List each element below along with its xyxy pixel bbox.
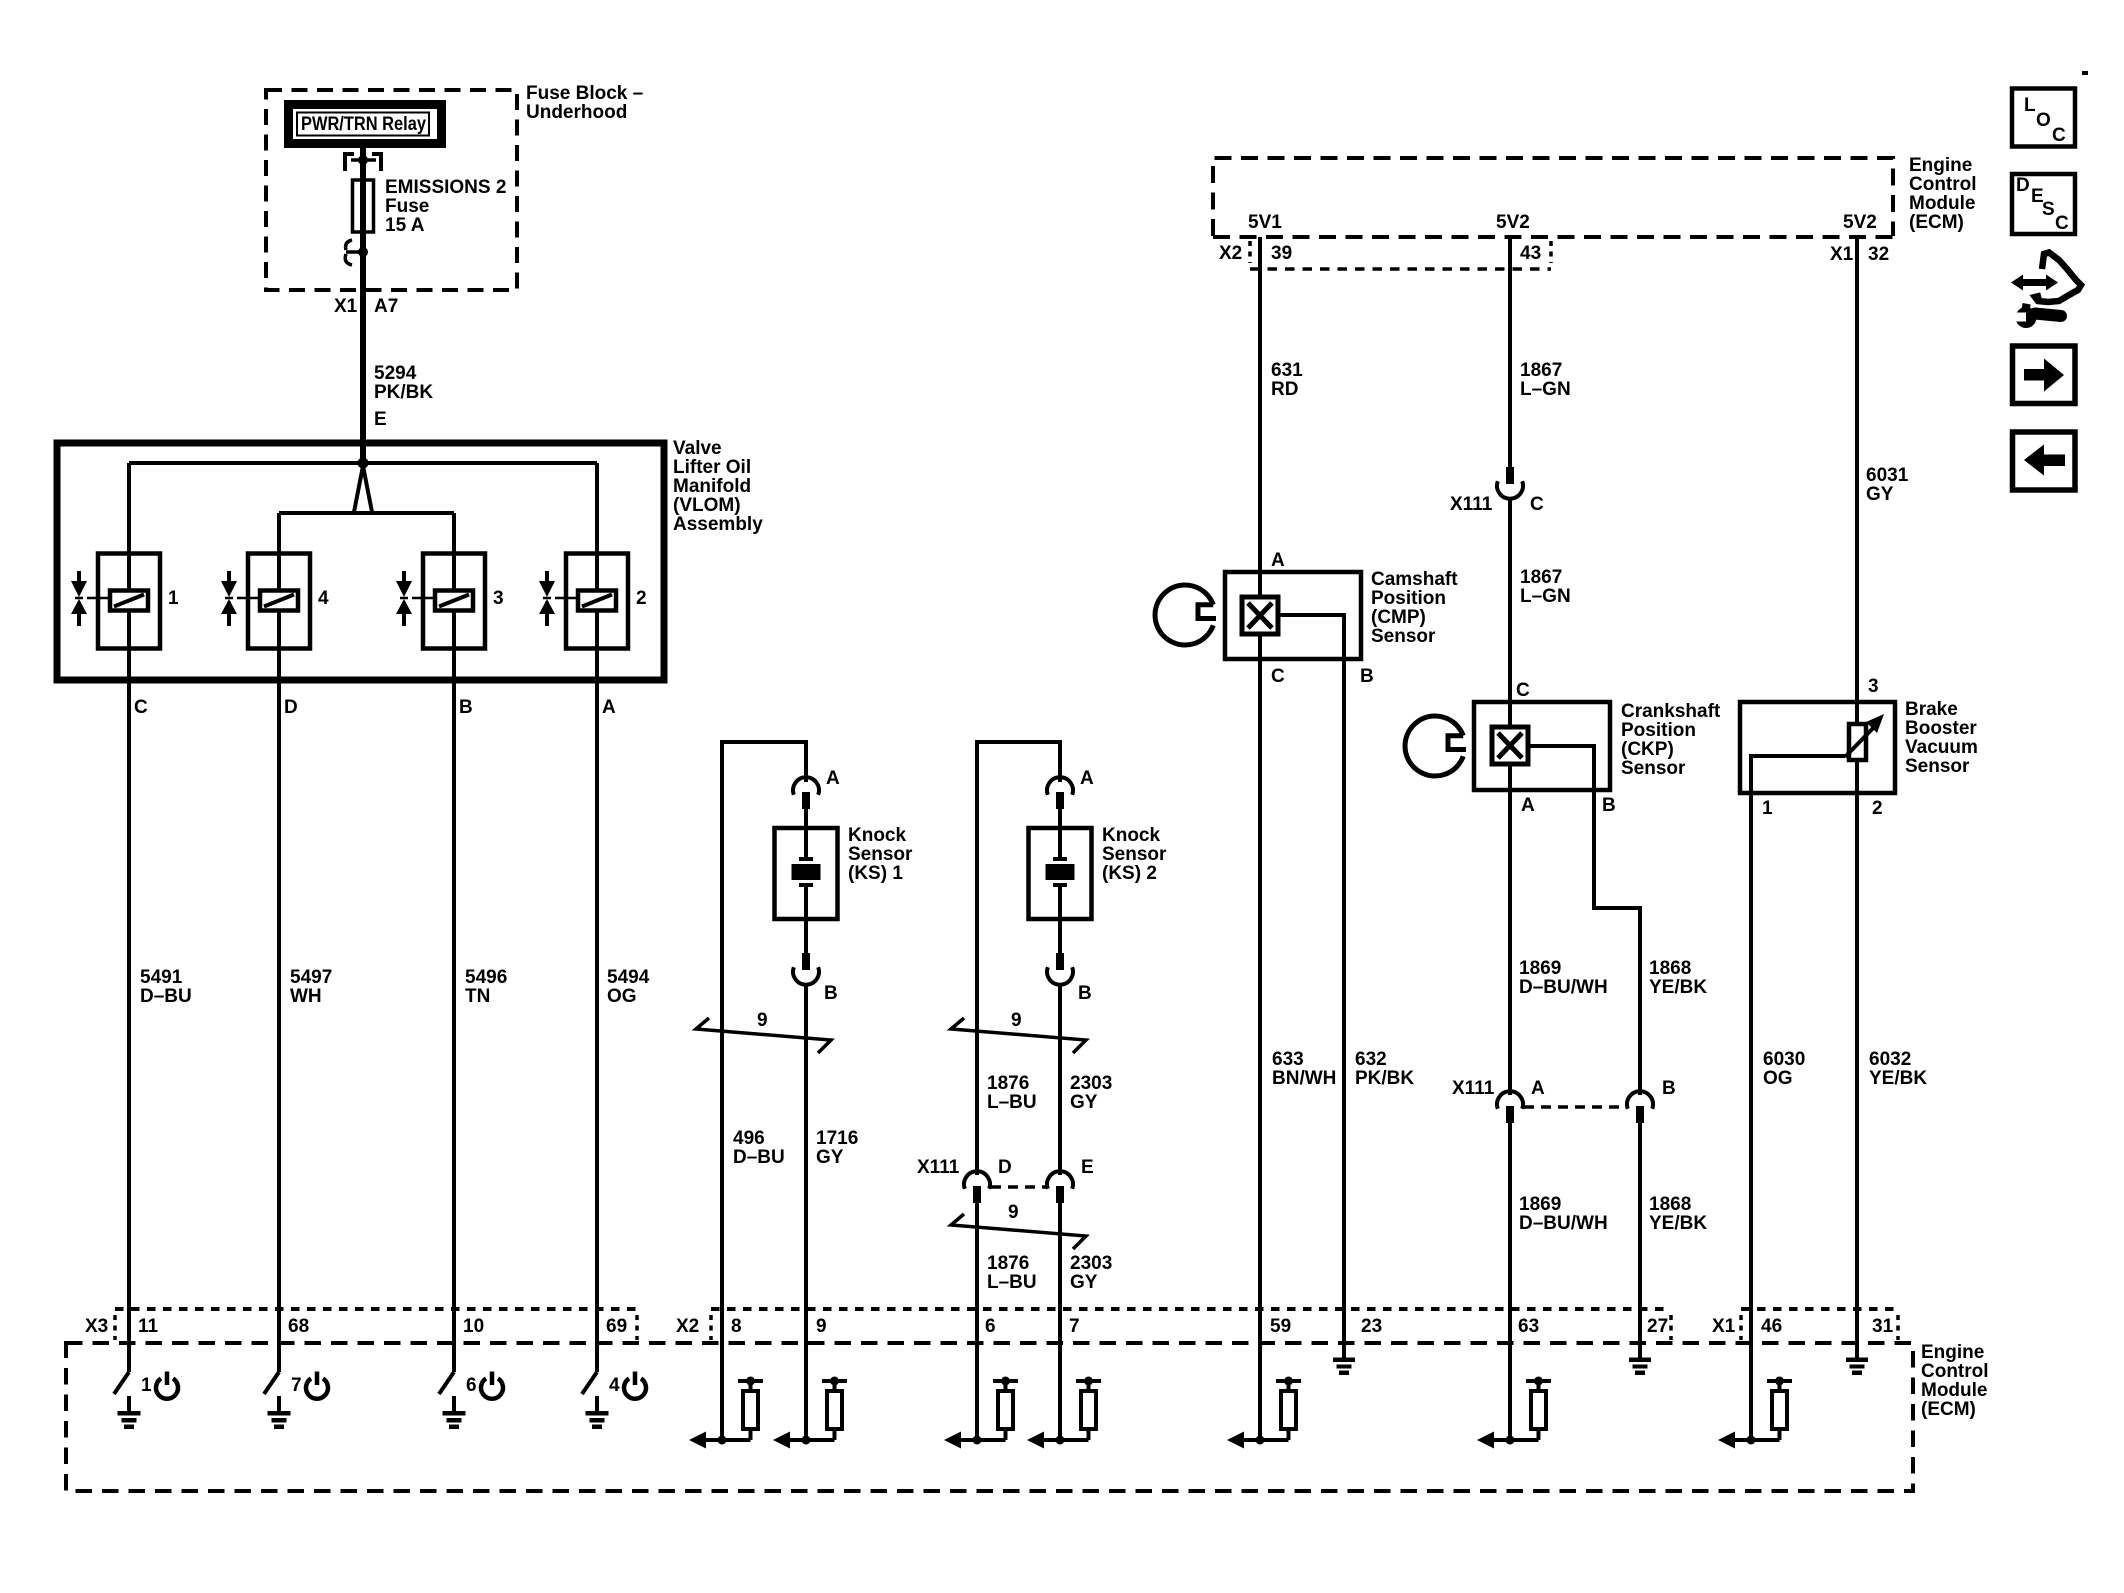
wire column B upper: [452, 513, 456, 553]
svg-text:B: B: [1360, 666, 1374, 687]
mark top right: [2082, 71, 2088, 75]
svg-text:Sensor: Sensor: [1905, 756, 1970, 777]
svg-text:8: 8: [731, 1316, 742, 1337]
wire dashed X111 D-E link: [991, 1185, 1046, 1189]
svg-text:C: C: [1530, 494, 1544, 515]
svg-text:Module: Module: [1909, 193, 1976, 214]
svg-text:31: 31: [1872, 1316, 1894, 1337]
wire 6030 OG: [1749, 793, 1753, 1343]
svg-text:Engine: Engine: [1909, 155, 1972, 176]
svg-text:4: 4: [609, 1375, 620, 1396]
svg-text:9: 9: [1008, 1202, 1019, 1223]
svg-text:(VLOM): (VLOM): [673, 495, 741, 516]
svg-text:1867: 1867: [1520, 567, 1562, 588]
svg-text:X111: X111: [917, 1157, 960, 1178]
svg-text:11: 11: [138, 1316, 159, 1337]
svg-text:5V2: 5V2: [1843, 212, 1877, 233]
svg-text:PK/BK: PK/BK: [374, 382, 433, 403]
svg-text:(KS) 2: (KS) 2: [1102, 863, 1157, 884]
shield symbol KS2 circuit 9 upper: [951, 1010, 1086, 1053]
svg-text:TN: TN: [465, 986, 490, 1007]
svg-text:1: 1: [141, 1375, 152, 1396]
svg-text:X1: X1: [1830, 244, 1854, 265]
svg-text:2303: 2303: [1070, 1253, 1112, 1274]
svg-text:631: 631: [1271, 360, 1303, 381]
svg-text:5V2: 5V2: [1496, 212, 1530, 233]
svg-text:6: 6: [466, 1375, 477, 1396]
svg-text:6031: 6031: [1866, 465, 1909, 486]
power symbol 7: [306, 1372, 328, 1399]
svg-text:RD: RD: [1271, 379, 1298, 400]
wire KS1 right drop: [804, 740, 808, 782]
svg-text:B: B: [1078, 983, 1092, 1004]
svg-text:Crankshaft: Crankshaft: [1621, 701, 1721, 722]
svg-text:C: C: [1516, 680, 1530, 701]
svg-text:43: 43: [1520, 243, 1541, 264]
valve symbol 1: [71, 571, 110, 626]
svg-text:X111: X111: [1452, 1078, 1495, 1099]
wire 5491 D-BU: [127, 648, 131, 1343]
svg-text:E: E: [374, 409, 387, 430]
wire 2303 below X111: [1058, 1203, 1062, 1343]
wire 631 RD: [1258, 237, 1262, 597]
wire 633 BN/WH: [1258, 634, 1262, 1343]
svg-text:B: B: [824, 983, 838, 1004]
svg-text:1867: 1867: [1520, 360, 1562, 381]
svg-text:5494: 5494: [607, 967, 650, 988]
ECM bottom dashed box: [66, 1343, 1913, 1491]
wire 5497 WH: [277, 648, 281, 1343]
svg-text:7: 7: [1069, 1316, 1080, 1337]
Fuse Block - Underhood dashed box: [266, 90, 517, 290]
svg-text:1: 1: [168, 588, 179, 609]
svg-text:9: 9: [816, 1316, 827, 1337]
svg-text:496: 496: [733, 1128, 765, 1149]
svg-text:(CMP): (CMP): [1371, 607, 1426, 628]
svg-text:Sensor: Sensor: [1371, 626, 1436, 647]
icon arrow right box: [2013, 346, 2076, 404]
wire 1868 YE/BK upper with jog: [1594, 790, 1640, 1095]
svg-text:X111: X111: [1450, 494, 1493, 515]
svg-text:X3: X3: [85, 1316, 108, 1337]
svg-text:A: A: [1080, 768, 1094, 789]
wire 1869 D-BU/WH lower: [1508, 1122, 1512, 1343]
solenoid 2: [566, 553, 628, 649]
svg-text:Lifter Oil: Lifter Oil: [673, 457, 751, 478]
svg-text:(KS) 1: (KS) 1: [848, 863, 903, 884]
svg-text:B: B: [1662, 1078, 1676, 1099]
ground pin 27: [1629, 1343, 1651, 1375]
wire 1868 YE/BK lower: [1638, 1122, 1642, 1343]
svg-text:5496: 5496: [465, 967, 507, 988]
svg-text:46: 46: [1761, 1316, 1782, 1337]
wire KS2 right drop: [1058, 740, 1062, 782]
wire Y split to rail D-B: [354, 466, 372, 512]
svg-text:O: O: [2036, 110, 2051, 131]
svg-text:Camshaft: Camshaft: [1371, 569, 1458, 590]
ECM top bottom edge dashed: [1213, 235, 1893, 239]
wire 6031 GY: [1855, 237, 1859, 722]
wire top rail C-A: [129, 461, 597, 465]
svg-text:68: 68: [288, 1316, 309, 1337]
svg-text:59: 59: [1270, 1316, 1291, 1337]
svg-text:YE/BK: YE/BK: [1649, 1213, 1707, 1234]
svg-text:OG: OG: [1763, 1068, 1793, 1089]
svg-text:L–GN: L–GN: [1520, 586, 1571, 607]
svg-text:1868: 1868: [1649, 958, 1691, 979]
svg-text:15 A: 15 A: [385, 215, 425, 236]
svg-text:Brake: Brake: [1905, 699, 1958, 720]
connector X111 pin C: [1450, 467, 1544, 515]
wire CKP internal to B: [1528, 746, 1594, 790]
svg-text:Engine: Engine: [1921, 1342, 1984, 1363]
svg-text:PK/BK: PK/BK: [1355, 1068, 1414, 1089]
wire 2303 GY upper: [1058, 984, 1062, 1175]
svg-text:Valve: Valve: [673, 438, 722, 459]
ECM top dashed box: [1213, 158, 1893, 236]
svg-text:1868: 1868: [1649, 1194, 1691, 1215]
svg-text:1869: 1869: [1519, 1194, 1561, 1215]
svg-text:2303: 2303: [1070, 1073, 1112, 1094]
svg-text:D: D: [2016, 175, 2030, 196]
wire column A upper: [595, 463, 599, 553]
svg-text:39: 39: [1271, 243, 1292, 264]
wire KS2 to pin B: [1058, 919, 1062, 953]
svg-text:Vacuum: Vacuum: [1905, 737, 1978, 758]
svg-text:A7: A7: [374, 296, 398, 317]
svg-text:B: B: [1602, 795, 1616, 816]
svg-text:23: 23: [1361, 1316, 1382, 1337]
svg-text:D–BU/WH: D–BU/WH: [1519, 1213, 1608, 1234]
svg-text:WH: WH: [290, 986, 322, 1007]
camshaft position CMP sensor: [1225, 569, 1458, 659]
power symbol 1: [156, 1372, 178, 1399]
ground pin 23: [1333, 1343, 1355, 1375]
wire 1867 L-GN lower: [1508, 499, 1512, 727]
svg-text:4: 4: [318, 588, 329, 609]
wire relay to fuse: [360, 148, 366, 180]
svg-text:6030: 6030: [1763, 1049, 1805, 1070]
shield symbol KS2 circuit 9 lower: [951, 1202, 1086, 1249]
resistor input pin 6: [944, 1343, 1018, 1449]
svg-text:C: C: [134, 697, 148, 718]
wire KS2 left 1876 L-BU: [975, 740, 979, 1343]
connector KS2 pin A: [1047, 768, 1094, 809]
connector KS1 pin B: [793, 953, 838, 1004]
svg-text:63: 63: [1518, 1316, 1539, 1337]
svg-text:3: 3: [1868, 676, 1879, 697]
svg-text:27: 27: [1647, 1316, 1668, 1337]
svg-text:(ECM): (ECM): [1909, 212, 1964, 233]
icon LOC box: [2012, 89, 2075, 147]
svg-text:YE/BK: YE/BK: [1869, 1068, 1927, 1089]
svg-text:1876: 1876: [987, 1073, 1029, 1094]
wire 1869 D-BU/WH upper: [1508, 764, 1512, 1095]
power symbol 6: [481, 1372, 503, 1399]
wire KS1 to pin B: [804, 919, 808, 953]
shield symbol KS1 circuit 9: [696, 1010, 831, 1053]
wire 6032 YE/BK: [1855, 760, 1859, 1343]
svg-text:D–BU: D–BU: [140, 986, 192, 1007]
svg-text:X1: X1: [334, 296, 358, 317]
svg-text:OG: OG: [607, 986, 637, 1007]
svg-text:9: 9: [757, 1010, 768, 1031]
svg-text:EMISSIONS 2: EMISSIONS 2: [385, 177, 506, 198]
wire KS1 top loop: [720, 740, 806, 744]
svg-text:7: 7: [291, 1375, 302, 1396]
svg-text:Assembly: Assembly: [673, 514, 763, 535]
driver switch 4 ground: [582, 1343, 620, 1429]
svg-text:GY: GY: [816, 1147, 844, 1168]
svg-text:L–BU: L–BU: [987, 1272, 1037, 1293]
svg-text:69: 69: [606, 1316, 627, 1337]
svg-text:D: D: [284, 697, 298, 718]
wire rail D-B: [279, 511, 454, 515]
relay PWR/TRN Relay: [289, 105, 442, 144]
svg-text:BN/WH: BN/WH: [1272, 1068, 1336, 1089]
wire 1876 below X111: [975, 1203, 979, 1343]
valve symbol 4: [221, 571, 260, 626]
svg-text:10: 10: [463, 1316, 484, 1337]
svg-text:32: 32: [1868, 244, 1889, 265]
svg-text:L–GN: L–GN: [1520, 379, 1571, 400]
svg-text:Underhood: Underhood: [526, 102, 627, 123]
svg-text:GY: GY: [1070, 1092, 1098, 1113]
wire KS2 top loop: [975, 740, 1060, 744]
svg-text:5V1: 5V1: [1248, 212, 1282, 233]
connector KS2 pin B: [1047, 953, 1092, 1004]
svg-text:633: 633: [1272, 1049, 1304, 1070]
wire CMP internal to B: [1278, 615, 1344, 659]
svg-text:C: C: [2055, 213, 2069, 234]
svg-text:Sensor: Sensor: [1102, 844, 1167, 865]
svg-text:Module: Module: [1921, 1380, 1988, 1401]
wire 5496 TN: [452, 648, 456, 1343]
svg-text:A: A: [602, 697, 616, 718]
resistor input pin 9: [773, 1343, 847, 1449]
solenoid 3: [423, 553, 485, 649]
svg-text:Fuse: Fuse: [385, 196, 429, 217]
svg-text:C: C: [1271, 666, 1285, 687]
connector X111 pin B: [1627, 1078, 1676, 1123]
svg-text:6: 6: [985, 1316, 996, 1337]
svg-text:A: A: [826, 768, 840, 789]
svg-text:A: A: [1521, 795, 1535, 816]
wire fuse to lower clip: [360, 232, 366, 290]
svg-text:2: 2: [1872, 798, 1883, 819]
connector X3 dotted strip: [115, 1309, 637, 1340]
svg-text:YE/BK: YE/BK: [1649, 977, 1707, 998]
svg-text:A: A: [1271, 550, 1285, 571]
fuse EMISSIONS 2 15A: [353, 180, 374, 232]
driver switch 6 ground: [439, 1343, 477, 1429]
connector X111 pin A: [1452, 1078, 1545, 1123]
valve symbol 2: [539, 571, 578, 626]
knock sensor KS1: [775, 825, 914, 919]
reluctor wheel CKP: [1405, 716, 1466, 776]
svg-text:E: E: [1081, 1157, 1094, 1178]
resistor input pin 8: [689, 1343, 763, 1449]
wire column C upper: [127, 463, 131, 553]
svg-text:(CKP): (CKP): [1621, 739, 1674, 760]
connector KS1 pin A: [793, 768, 840, 809]
svg-text:Knock: Knock: [1102, 825, 1161, 846]
connector X2 top labels 39 43: [1219, 241, 1551, 269]
svg-text:1869: 1869: [1519, 958, 1561, 979]
resistor input pin 59: [1227, 1343, 1301, 1449]
icon arrow left box: [2013, 432, 2076, 490]
VLOM assembly box: [57, 443, 664, 680]
svg-text:(ECM): (ECM): [1921, 1399, 1976, 1420]
wire 5294 PK/BK: [360, 290, 366, 443]
ground pin 31: [1846, 1343, 1868, 1375]
wire column D upper: [277, 513, 281, 553]
svg-text:2: 2: [636, 588, 647, 609]
svg-text:Sensor: Sensor: [1621, 758, 1686, 779]
wire KS1 left 496 D-BU: [720, 740, 724, 1343]
knock sensor KS2: [1029, 825, 1168, 919]
wire into KS2: [1058, 808, 1062, 828]
fuse holder lower clip: [345, 240, 368, 265]
svg-text:Position: Position: [1621, 720, 1696, 741]
node junction dot: [358, 458, 369, 469]
wire 5494 OG: [595, 648, 599, 1343]
svg-text:X2: X2: [676, 1316, 699, 1337]
svg-text:3: 3: [493, 588, 504, 609]
svg-text:Booster: Booster: [1905, 718, 1977, 739]
driver switch 7 ground: [264, 1343, 302, 1429]
svg-text:632: 632: [1355, 1049, 1387, 1070]
wire E into VLOM: [360, 443, 366, 463]
svg-text:1876: 1876: [987, 1253, 1029, 1274]
svg-text:D–BU/WH: D–BU/WH: [1519, 977, 1608, 998]
svg-text:1: 1: [1762, 798, 1773, 819]
wire 632 PK/BK: [1342, 659, 1346, 1343]
svg-text:Knock: Knock: [848, 825, 907, 846]
wire 1716 GY: [804, 984, 808, 1343]
svg-text:1716: 1716: [816, 1128, 858, 1149]
svg-text:GY: GY: [1070, 1272, 1098, 1293]
svg-text:5497: 5497: [290, 967, 332, 988]
svg-text:L: L: [2024, 95, 2036, 116]
svg-text:6032: 6032: [1869, 1049, 1911, 1070]
driver switch 1 ground: [114, 1343, 152, 1429]
resistor input pin 63: [1477, 1343, 1551, 1449]
svg-text:Fuse Block –: Fuse Block –: [526, 83, 643, 104]
wire BBV internal pin1: [1751, 756, 1845, 793]
svg-text:A: A: [1531, 1078, 1545, 1099]
reluctor wheel CMP: [1155, 585, 1216, 645]
svg-text:Sensor: Sensor: [848, 844, 913, 865]
brake booster vacuum sensor: [1740, 699, 1978, 793]
svg-text:Control: Control: [1921, 1361, 1989, 1382]
svg-text:5491: 5491: [140, 967, 183, 988]
svg-text:PWR/TRN Relay: PWR/TRN Relay: [301, 114, 426, 135]
svg-text:B: B: [459, 697, 473, 718]
resistor input pin 46: [1718, 1343, 1792, 1449]
svg-text:Control: Control: [1909, 174, 1977, 195]
power symbol 4: [624, 1372, 646, 1399]
connector X111 pin D: [917, 1157, 1012, 1203]
wire 1867 L-GN upper: [1508, 237, 1512, 468]
wire into KS1: [804, 808, 808, 828]
svg-text:D–BU: D–BU: [733, 1147, 785, 1168]
svg-text:Manifold: Manifold: [673, 476, 751, 497]
solenoid 4: [248, 553, 310, 649]
svg-text:D: D: [998, 1157, 1012, 1178]
icon vehicle double-arrow wrench: [2010, 253, 2081, 329]
connector X1 dotted strip: [1741, 1309, 1898, 1340]
fuse holder upper clip: [345, 154, 381, 171]
svg-text:C: C: [2052, 125, 2066, 146]
potentiometer BBV: [1845, 714, 1884, 760]
svg-text:L–BU: L–BU: [987, 1092, 1037, 1113]
wire dashed X111 A-B link: [1524, 1105, 1626, 1109]
connector X2 dotted strip: [711, 1309, 1671, 1340]
svg-text:9: 9: [1011, 1010, 1022, 1031]
svg-text:X1: X1: [1712, 1316, 1736, 1337]
connector X111 pin E: [1047, 1157, 1094, 1203]
svg-text:Position: Position: [1371, 588, 1446, 609]
svg-text:GY: GY: [1866, 484, 1894, 505]
connector X1 top labels 32: [1830, 244, 1889, 265]
svg-text:S: S: [2042, 199, 2055, 220]
svg-text:5294: 5294: [374, 363, 417, 384]
crankshaft position CKP sensor: [1474, 701, 1721, 790]
resistor input pin 7: [1027, 1343, 1101, 1449]
icon DESC box: [2012, 174, 2075, 234]
valve symbol 3: [396, 571, 435, 626]
svg-text:X2: X2: [1219, 243, 1242, 264]
solenoid 1: [98, 553, 160, 649]
